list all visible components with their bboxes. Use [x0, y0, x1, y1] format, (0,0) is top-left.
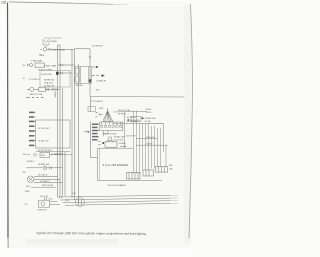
svg-text:18 LGN 11: 18 LGN 11	[38, 175, 48, 177]
wire: vertical single	[78, 64, 80, 193]
connector body C2	[36, 120, 71, 148]
bleed-through smudge	[26, 239, 118, 244]
node D dark terminal	[56, 72, 59, 75]
engine compartment box	[98, 148, 163, 180]
ballast resistor R2	[105, 142, 117, 147]
junction block C100	[75, 67, 92, 84]
label harness codes	[92, 124, 99, 141]
connector block C5	[143, 170, 154, 176]
wire bundle: engine harness verticals	[134, 111, 167, 174]
svg-text:1 BLK: 1 BLK	[25, 191, 31, 193]
connector box C7	[131, 117, 141, 122]
wire: bus lines bottom	[58, 195, 171, 197]
svg-text:18 TAN 12: 18 TAN 12	[40, 180, 50, 183]
svg-text:18 RED 50D: 18 RED 50D	[145, 118, 157, 120]
svg-text:18 DG 50: 18 DG 50	[146, 137, 155, 139]
wire: row y145	[136, 144, 168, 146]
svg-text:14 BLK 28F: 14 BLK 28F	[41, 74, 52, 76]
wire: bend corners into bus	[57, 196, 59, 197]
generator G1 row	[27, 87, 60, 91]
svg-text:18 BLK: 18 BLK	[54, 91, 56, 98]
connector C3 row	[27, 166, 63, 170]
svg-text:16 DBL 2: 16 DBL 2	[27, 161, 36, 163]
svg-text:P TO HEI 2P: P TO HEI 2P	[91, 101, 104, 103]
wire: washer feed to bus	[50, 48, 74, 50]
wire: long horizontal main feed	[90, 96, 184, 99]
wire: main vertical right x90	[89, 49, 91, 97]
svg-text:18 PPL 50 16 P: 18 PPL 50 16 P	[38, 150, 53, 152]
ignition coil junction circle at bus	[76, 198, 85, 207]
svg-text:20 BLK: 20 BLK	[146, 144, 153, 146]
svg-text:18 DG 25: 18 DG 25	[40, 196, 48, 198]
node E	[102, 142, 104, 144]
svg-text:20 A 14 G: 20 A 14 G	[44, 81, 54, 84]
marker lamp row	[31, 186, 56, 188]
svg-text:3 RED BAT: 3 RED BAT	[31, 59, 43, 62]
left page edge	[7, 3, 10, 239]
svg-text:JCT BLK 4: JCT BLK 4	[29, 79, 40, 81]
horn relay K1 outline	[40, 71, 70, 88]
svg-text:14 BRN: 14 BRN	[119, 143, 127, 145]
node C dash tap with terminal dot	[91, 75, 105, 77]
connector block C6	[156, 167, 168, 173]
wire: vertical bus pair left	[57, 45, 59, 196]
svg-text:18 BLK 6B: 18 BLK 6B	[130, 120, 140, 122]
node F	[127, 119, 129, 121]
headlamp L1	[27, 176, 62, 183]
svg-text:18 BLK 16 DBL: 18 BLK 16 DBL	[51, 49, 66, 51]
svg-text:14 BLK 39: 14 BLK 39	[126, 136, 136, 138]
svg-text:Typical 1977 through 1980 250: Typical 1977 through 1980 250 cid 6-cyli…	[36, 231, 146, 236]
horn H1	[39, 197, 61, 207]
wire: row y138	[136, 138, 158, 140]
svg-text:50D: 50D	[169, 165, 173, 167]
svg-text:18 DG 50 30 AMPS: 18 DG 50 30 AMPS	[108, 184, 127, 187]
battery terminal connector	[28, 63, 45, 67]
svg-text:4J: 4J	[23, 78, 25, 80]
wire: battery feed to junction	[58, 64, 75, 66]
svg-text:4 CYL 250 ENGINE: 4 CYL 250 ENGINE	[103, 163, 129, 167]
pin stubs	[33, 112, 36, 145]
bulkhead connector C2 pin list	[29, 112, 35, 147]
terminal arrows row	[120, 145, 126, 147]
svg-text:16 BLK 6 TEL: 16 BLK 6 TEL	[118, 110, 131, 112]
svg-text:2W: 2W	[23, 172, 26, 174]
resistor wire R1 vertical with labels	[88, 97, 96, 112]
svg-text:GEN 12V 37A: GEN 12V 37A	[30, 93, 43, 96]
wire: short verticals inner	[62, 88, 64, 196]
wire: vertical drop x124	[124, 112, 126, 145]
svg-text:20 A 4: 20 A 4	[146, 108, 152, 111]
connector ticks on bus	[60, 196, 69, 201]
arrow terminal on harness drop	[84, 131, 90, 133]
MAIN SCHEMATIC	[58, 45, 185, 205]
connector block C4	[127, 173, 141, 180]
svg-text:20 LBL: 20 LBL	[145, 121, 152, 123]
svg-text:16 DG: 16 DG	[146, 112, 152, 114]
node G	[142, 117, 144, 119]
svg-text:34J: 34J	[39, 55, 42, 57]
wire: row to bundle	[113, 122, 163, 124]
svg-text:WSHR: WSHR	[51, 41, 58, 43]
wire: C2 lower lead w/ label	[36, 150, 70, 152]
svg-text:16 P: 16 P	[96, 90, 101, 92]
node A (feed tap)	[92, 66, 98, 68]
svg-text:14 DG 150 P: 14 DG 150 P	[38, 128, 51, 130]
svg-text:16 ORN 2P: 16 ORN 2P	[92, 46, 103, 48]
spark plugs P1-P6	[99, 122, 123, 137]
top rule (page header line)	[9, 2, 70, 3]
wire: distributor top feed	[113, 110, 147, 113]
svg-text:DIST: DIST	[99, 108, 104, 110]
distributor U1	[99, 108, 113, 122]
wire: top horizontal feed	[75, 48, 91, 50]
windshield washer pump W1	[43, 38, 62, 48]
wire: relay row	[59, 72, 72, 74]
svg-text:16 LBL 150: 16 LBL 150	[38, 140, 49, 142]
svg-text:16 YEL 43: 16 YEL 43	[127, 117, 137, 119]
svg-text:PRK 18 DBL: PRK 18 DBL	[42, 185, 54, 187]
wire: corner into bundle	[147, 123, 163, 152]
right page edge	[189, 4, 192, 238]
connector J1	[40, 48, 50, 52]
svg-text:20 DG 916: 20 DG 916	[114, 139, 125, 141]
svg-text:6 RED 2 BAT: 6 RED 2 BAT	[44, 65, 57, 68]
svg-text:18 BRN 24B: 18 BRN 24B	[38, 164, 50, 166]
svg-text:18 PPL 6: 18 PPL 6	[118, 114, 127, 116]
wire: generator stub dots	[27, 96, 44, 99]
fusible link F1	[27, 152, 73, 157]
wire: engine harness drop	[91, 122, 98, 158]
svg-text:236: 236	[1, 1, 7, 5]
wire: vertical bus middle pair	[71, 49, 73, 190]
svg-text:HORN RLY: HORN RLY	[44, 79, 55, 81]
svg-text:BLKHD: BLKHD	[76, 85, 83, 87]
svg-text:SPARK PLUGS: SPARK PLUGS	[103, 133, 118, 136]
svg-text:12 RED 2R: 12 RED 2R	[96, 81, 107, 83]
svg-text:12 GA FUSE: 12 GA FUSE	[51, 153, 63, 156]
svg-text:HORN LH: HORN LH	[38, 210, 48, 212]
ignition coil T1	[106, 137, 114, 142]
svg-text:18 RED 14A: 18 RED 14A	[114, 135, 126, 138]
pin ticks left of R2	[98, 142, 101, 145]
node B on main vertical	[89, 56, 91, 58]
